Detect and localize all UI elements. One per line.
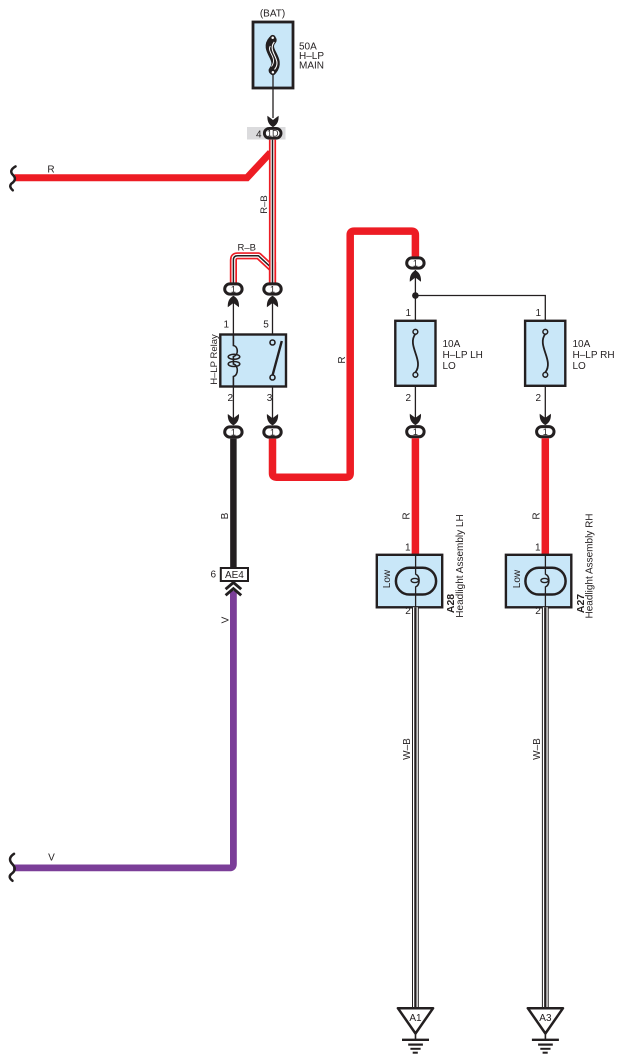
relay coil xyxy=(233,335,237,387)
wire RH fuse down to connector xyxy=(544,386,546,420)
wire break squiggle purple end xyxy=(10,854,15,881)
svg-text:1: 1 xyxy=(413,258,418,268)
svg-text:Low: Low xyxy=(512,569,523,588)
svg-text:H–LP Relay: H–LP Relay xyxy=(209,334,220,385)
svg-text:2: 2 xyxy=(405,393,411,404)
svg-text:R–B: R–B xyxy=(237,242,255,253)
svg-text:Low: Low xyxy=(382,569,393,588)
connector AE4 xyxy=(221,568,248,581)
svg-text:1: 1 xyxy=(405,308,411,319)
wire B black thick xyxy=(230,439,237,568)
svg-text:2: 2 xyxy=(535,393,541,404)
svg-text:1: 1 xyxy=(270,427,275,437)
headlight assembly RH A27 xyxy=(506,555,571,608)
svg-text:Headlight Assembly RH: Headlight Assembly RH xyxy=(585,513,596,618)
headlight assembly LH A28 xyxy=(377,555,442,608)
arrow into connector pin1 xyxy=(228,296,239,307)
relay switch xyxy=(273,341,282,376)
wire W-B RH xyxy=(542,607,549,1008)
svg-text:W–B: W–B xyxy=(402,738,413,760)
svg-text:R–B: R–B xyxy=(259,195,270,213)
wire relay pin5 up to connector xyxy=(272,296,274,343)
wire W-B LH (white with black stripe) xyxy=(412,607,419,1008)
svg-text:1: 1 xyxy=(405,543,411,554)
fusible link FL 50A H-LP MAIN xyxy=(253,22,293,88)
svg-text:2: 2 xyxy=(227,393,233,404)
wire R to RH headlight xyxy=(542,438,550,555)
svg-text:2: 2 xyxy=(535,606,541,617)
svg-text:A1: A1 xyxy=(409,1013,422,1024)
wire connector down to junction xyxy=(414,270,416,321)
connector oval 1 (relay pin1 side) xyxy=(225,284,242,294)
wire R (thick red from left edge) xyxy=(15,153,271,178)
svg-text:1: 1 xyxy=(223,320,229,331)
connector oval 1 (relay pin5 side) xyxy=(264,284,281,294)
double chevron junction xyxy=(226,583,242,590)
svg-text:1: 1 xyxy=(231,284,236,294)
wire R-B vertical repaint over branch junction xyxy=(269,262,276,283)
wire junction to RH fuse xyxy=(415,296,545,321)
svg-text:Headlight Assembly LH: Headlight Assembly LH xyxy=(455,514,466,617)
connector oval 1 (below pin2) xyxy=(225,427,242,437)
junction node xyxy=(412,292,419,299)
fuse 10A H-LP RH LO xyxy=(525,321,565,386)
svg-text:V: V xyxy=(48,853,55,864)
svg-text:10A: 10A xyxy=(573,339,591,350)
svg-text:1: 1 xyxy=(413,427,418,437)
svg-text:A3: A3 xyxy=(539,1013,552,1024)
wire LH fuse down to connector xyxy=(414,386,416,420)
connector oval 1 (above fuses) xyxy=(407,258,424,268)
wire relay pin1 up to connector xyxy=(232,296,234,335)
arrow into connector below pin2 xyxy=(228,414,239,425)
arrow into 1D xyxy=(267,116,278,127)
svg-text:1D: 1D xyxy=(267,129,279,139)
svg-text:1: 1 xyxy=(231,427,236,437)
connector 1D xyxy=(247,127,286,141)
svg-text:H–LP LH: H–LP LH xyxy=(443,350,483,361)
svg-text:1: 1 xyxy=(270,284,275,294)
wire break squiggle left end xyxy=(10,166,15,190)
wire R thick path relay pin3 to LH fuse connector xyxy=(273,231,416,477)
fuse 10A H-LP LH LO xyxy=(395,321,435,386)
wire R to LH headlight xyxy=(412,438,420,555)
svg-text:LO: LO xyxy=(443,361,457,372)
connector oval 1 (below RH fuse) xyxy=(537,427,554,437)
svg-text:3: 3 xyxy=(267,393,273,404)
svg-text:4: 4 xyxy=(256,130,262,141)
arrow into LH connector xyxy=(410,414,421,425)
svg-text:R: R xyxy=(337,356,348,363)
svg-text:6: 6 xyxy=(210,570,216,581)
svg-text:LO: LO xyxy=(573,361,587,372)
svg-text:1: 1 xyxy=(543,427,548,437)
wire R-B vertical (red with black stripe) xyxy=(269,140,276,283)
svg-text:R: R xyxy=(402,512,413,519)
wire relay pin2 down to connector xyxy=(232,387,234,421)
svg-text:V: V xyxy=(220,616,231,623)
svg-text:R: R xyxy=(531,512,542,519)
wire fuse to connector 1D xyxy=(272,75,274,119)
wire V purple xyxy=(13,591,233,868)
svg-text:(BAT): (BAT) xyxy=(260,9,285,20)
arrow into connector pin5 xyxy=(267,296,278,307)
connector oval 1 (below LH fuse) xyxy=(407,427,424,437)
svg-text:5: 5 xyxy=(263,320,269,331)
wire relay pin3 down to connector xyxy=(272,387,274,421)
arrow into connector (above fuses) xyxy=(410,270,421,281)
svg-text:MAIN: MAIN xyxy=(299,61,324,72)
svg-text:H–LP RH: H–LP RH xyxy=(573,350,615,361)
svg-text:1: 1 xyxy=(535,543,541,554)
svg-text:W–B: W–B xyxy=(532,738,543,760)
arrow into connector below pin3 xyxy=(267,414,278,425)
ground A3 xyxy=(528,1008,563,1052)
svg-text:AE4: AE4 xyxy=(225,570,244,581)
bulb Low RH xyxy=(525,568,565,595)
svg-text:R: R xyxy=(47,165,54,176)
wire R-B branch loop to relay pin 1 xyxy=(233,256,272,283)
arrow into RH connector xyxy=(540,414,551,425)
ground A1 xyxy=(398,1008,433,1052)
relay H-LP Relay xyxy=(220,335,286,387)
svg-text:1: 1 xyxy=(535,308,541,319)
svg-text:B: B xyxy=(220,512,231,519)
svg-text:10A: 10A xyxy=(443,339,461,350)
svg-text:2: 2 xyxy=(405,606,411,617)
connector oval 1 (below pin3) xyxy=(264,427,281,437)
bulb Low LH xyxy=(396,568,436,595)
